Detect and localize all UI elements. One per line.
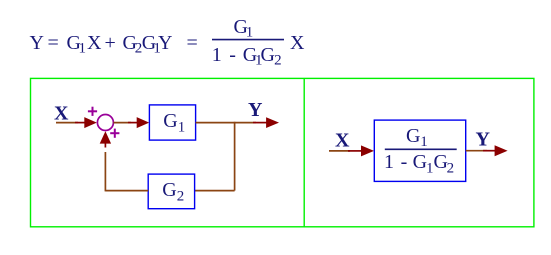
wire maroon tail output arrow left panel bbox=[253, 122, 267, 124]
svg-text:2: 2 bbox=[177, 189, 185, 205]
arrowhead output Y right panel bbox=[495, 145, 508, 156]
svg-text:Y: Y bbox=[30, 32, 44, 54]
svg-text:1: 1 bbox=[79, 40, 87, 56]
green frame divider line bbox=[303, 78, 305, 226]
svg-text:=: = bbox=[187, 32, 198, 54]
svg-text:G: G bbox=[261, 44, 275, 66]
equation fraction numerator G1 bbox=[234, 16, 254, 41]
equation term G1 second bbox=[142, 32, 161, 57]
green frame outer box bbox=[31, 78, 534, 226]
plus sign feedback input bbox=[110, 129, 119, 138]
block fraction bar bbox=[385, 148, 457, 150]
svg-text:1: 1 bbox=[178, 119, 186, 135]
arrowhead into G1 bbox=[137, 117, 150, 128]
wire input X to block right panel bbox=[329, 150, 350, 152]
svg-text:1: 1 bbox=[420, 134, 428, 150]
equation fraction bar bbox=[212, 39, 284, 41]
svg-text:1: 1 bbox=[384, 151, 394, 173]
wire block to output Y right panel bbox=[466, 150, 487, 152]
equation fraction denominator 1 - G1G2 bbox=[212, 44, 282, 69]
svg-text:X: X bbox=[87, 32, 102, 54]
arrowhead output Y left panel bbox=[266, 117, 279, 128]
wire maroon tail output arrow right panel bbox=[483, 150, 496, 152]
wire maroon tail G1 arrow bbox=[128, 122, 138, 124]
svg-text:G: G bbox=[162, 179, 176, 201]
wire branch to G2 bbox=[195, 190, 235, 192]
svg-text:1: 1 bbox=[212, 44, 222, 66]
svg-text:Y: Y bbox=[248, 99, 263, 121]
wire maroon tail input arrow bbox=[75, 122, 86, 124]
svg-text:-: - bbox=[229, 44, 236, 66]
arrowhead feedback into summing junction bbox=[100, 131, 111, 143]
equation term G1 bbox=[67, 32, 87, 57]
svg-text:G: G bbox=[163, 110, 177, 132]
svg-text:-: - bbox=[401, 151, 408, 173]
block closed-loop transfer function bbox=[374, 120, 465, 181]
svg-text:X: X bbox=[335, 130, 350, 152]
arrowhead into closed-loop block bbox=[361, 145, 374, 156]
svg-text:G: G bbox=[413, 151, 427, 173]
wire input X to summing junction bbox=[56, 122, 78, 124]
wire maroon tail feedback arrow bbox=[104, 144, 106, 148]
wire summing junction to G1 bbox=[113, 122, 131, 124]
block G2 bbox=[148, 174, 194, 209]
svg-text:G: G bbox=[406, 125, 420, 147]
block fraction denominator 1 - G1G2 bbox=[384, 151, 454, 177]
svg-text:+: + bbox=[105, 32, 116, 54]
label G1 inside block bbox=[163, 110, 185, 135]
svg-text:Y: Y bbox=[476, 129, 491, 151]
svg-text:2: 2 bbox=[274, 53, 282, 69]
svg-text:X: X bbox=[290, 32, 305, 54]
svg-text:1: 1 bbox=[426, 161, 434, 177]
svg-text:1: 1 bbox=[246, 25, 254, 41]
wire feedback riser up bbox=[104, 152, 106, 191]
junction branch point riser down bbox=[234, 122, 236, 191]
summing junction circle bbox=[97, 115, 113, 131]
svg-text:=: = bbox=[48, 32, 59, 54]
label G2 inside block bbox=[162, 179, 184, 204]
wire G2 to feedback riser bbox=[105, 190, 148, 192]
arrowhead into summing junction bbox=[84, 117, 97, 128]
equation term G2 bbox=[123, 32, 143, 57]
wire maroon tail input arrow right panel bbox=[348, 150, 362, 152]
plus sign upper input bbox=[88, 107, 97, 116]
block G1 bbox=[149, 105, 195, 140]
svg-text:Y: Y bbox=[158, 32, 172, 54]
block fraction numerator G1 bbox=[406, 125, 428, 150]
svg-text:X: X bbox=[54, 103, 69, 125]
svg-text:2: 2 bbox=[447, 161, 455, 177]
wire G1 to output Y bbox=[196, 122, 256, 124]
